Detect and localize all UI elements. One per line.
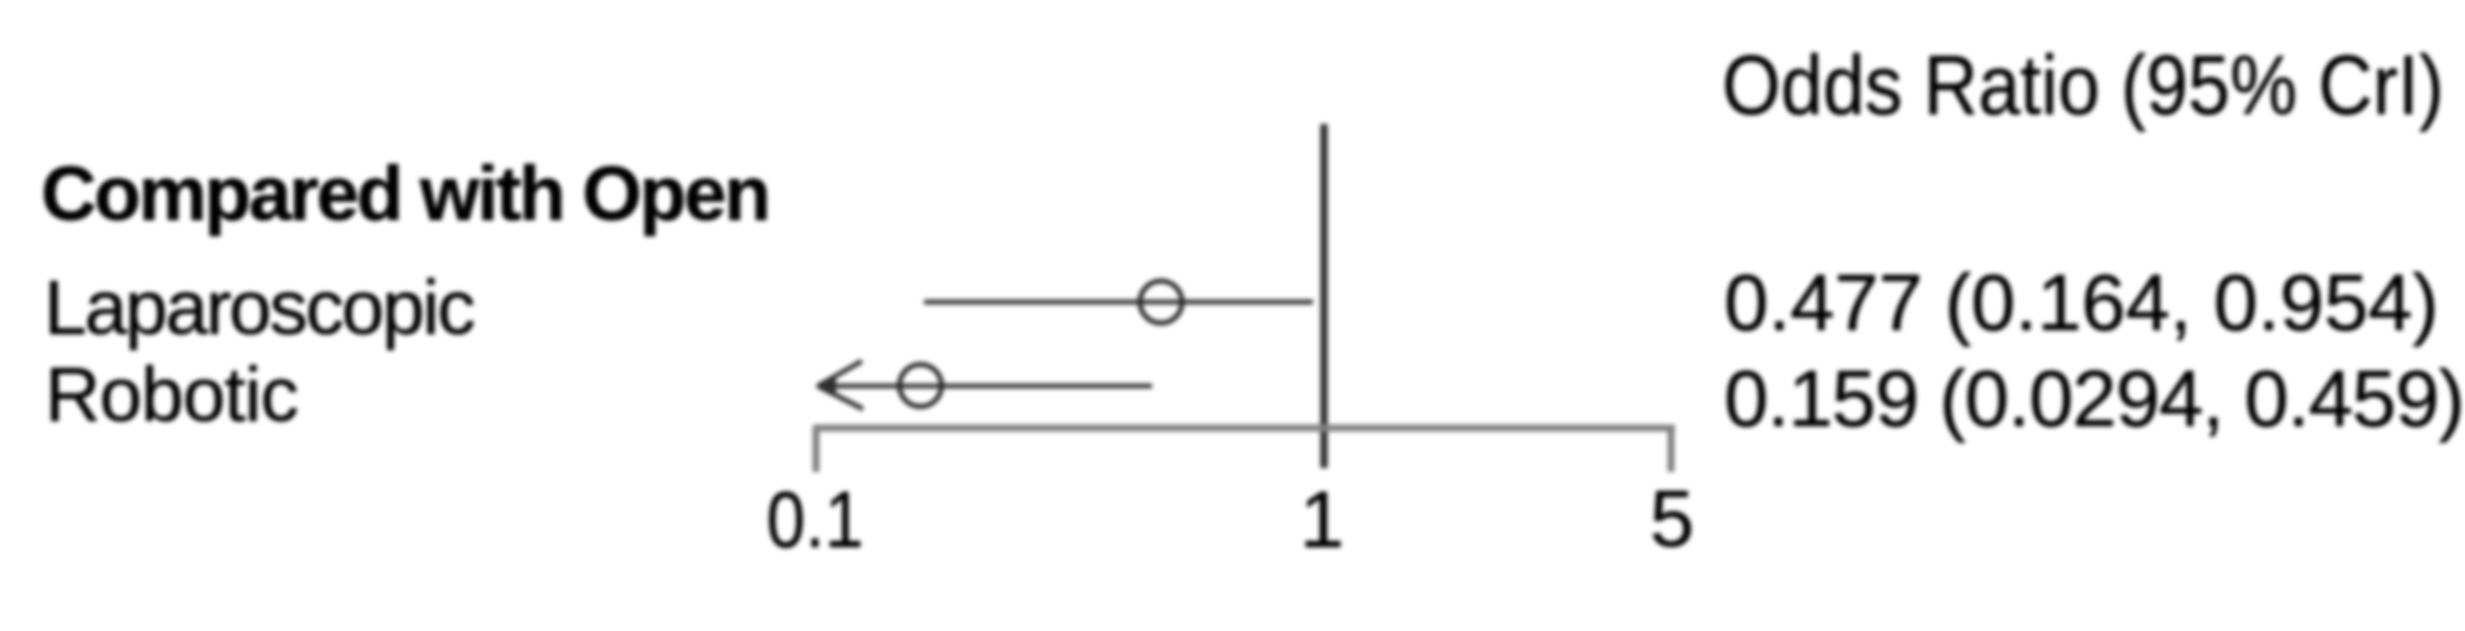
arrow head Robotic (CI beyond axis) bbox=[818, 361, 862, 386]
svg-text:Compared with Open: Compared with Open bbox=[41, 151, 769, 237]
svg-text:Odds Ratio (95% CrI): Odds Ratio (95% CrI) bbox=[1722, 38, 2444, 132]
svg-text:0.1: 0.1 bbox=[767, 475, 864, 564]
svg-text:Robotic: Robotic bbox=[45, 352, 298, 438]
tick 0.1 bbox=[813, 428, 820, 472]
svg-text:0.159 (0.0294, 0.459): 0.159 (0.0294, 0.459) bbox=[1724, 354, 2464, 443]
CI line Laparoscopic bbox=[924, 300, 1313, 305]
axis line bbox=[813, 425, 1675, 432]
svg-text:1: 1 bbox=[1300, 475, 1345, 564]
CI line Robotic bbox=[824, 384, 1152, 389]
svg-text:0.477 (0.164, 0.954): 0.477 (0.164, 0.954) bbox=[1724, 258, 2439, 347]
point Laparoscopic bbox=[1140, 281, 1182, 323]
tick 5 bbox=[1668, 428, 1675, 472]
svg-text:5: 5 bbox=[1650, 474, 1695, 563]
reference line at OR=1 bbox=[1320, 124, 1328, 468]
point Robotic bbox=[900, 365, 942, 407]
svg-text:Laparoscopic: Laparoscopic bbox=[44, 265, 474, 351]
